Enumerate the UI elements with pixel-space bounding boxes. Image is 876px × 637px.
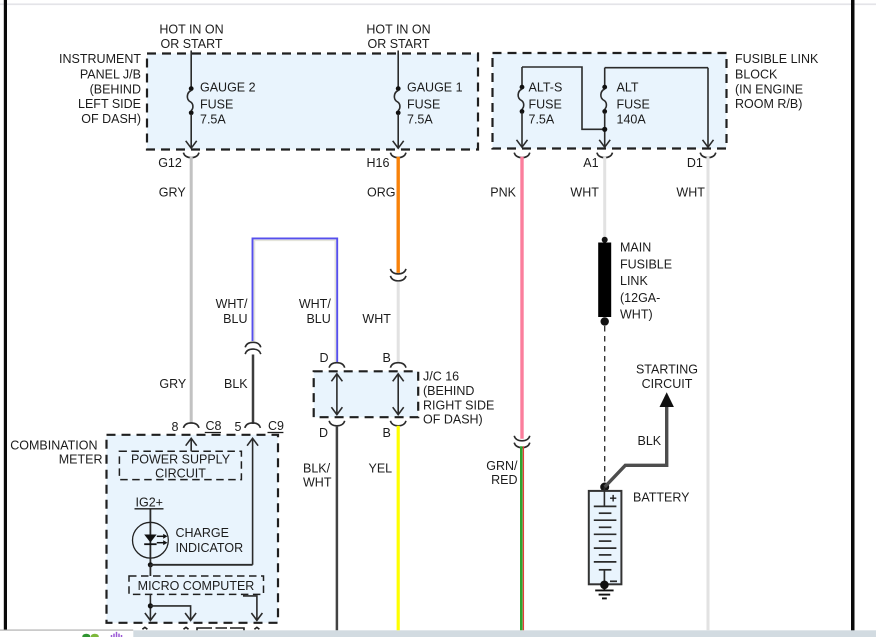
connector pin (PNK output) [514,153,530,158]
connector pin G12 [183,153,199,158]
svg-text:G12: G12 [158,156,182,170]
label ALT FUSE 140A [617,81,650,127]
junction node (ALT-S tap) [602,127,607,132]
bottom gray status bar [133,630,876,637]
svg-text:CIRCUIT: CIRCUIT [155,466,206,480]
wire IG2+ to LED [149,510,151,565]
svg-text:H16: H16 [367,156,390,170]
svg-text:D: D [319,426,328,440]
connector pin D cup (J/C16 bottom) [329,421,345,426]
main fusible link (12GA-WHT) [598,243,611,318]
wire PNK [520,157,523,439]
wire D1 drop inside block [707,68,709,147]
arrow to D1 [703,140,714,147]
bottom left purple icon fragment [112,632,122,637]
svg-text:WHT: WHT [676,186,705,200]
connector pin B cap (J/C16 top) [390,363,406,368]
svg-text:CIRCUIT: CIRCUIT [642,377,693,391]
label WHT/BLU (left) [216,297,248,326]
label BLK/WHT [303,461,332,489]
label GAUGE 2 FUSE 7.5A [200,81,256,127]
wire BLK to combination meter pin 5 [252,355,255,425]
svg-text:BLOCK: BLOCK [735,67,778,81]
svg-text:OF DASH): OF DASH) [81,112,141,126]
fuse ALT 140A [601,68,607,147]
svg-text:WHT: WHT [362,312,391,326]
junction connector J/C 16 block [314,371,419,417]
svg-text:8: 8 [172,420,179,434]
svg-text:WHT: WHT [570,186,599,200]
wire WHT to J/C16 pin B [397,282,400,363]
svg-text:GRN/: GRN/ [486,459,518,473]
svg-text:BLU: BLU [306,312,330,326]
battery [589,487,622,585]
svg-text:BLK/: BLK/ [303,461,331,475]
svg-text:FUSE: FUSE [200,97,233,111]
svg-text:WHT): WHT) [620,308,653,322]
connector pin D1 [700,153,716,158]
svg-text:GAUGE 1: GAUGE 1 [407,81,463,95]
svg-text:BATTERY: BATTERY [633,491,690,505]
label WHT/BLU (middle) [299,297,331,326]
svg-text:(BEHIND: (BEHIND [90,82,141,96]
wire pin 5 down right side [247,438,258,565]
svg-text:140A: 140A [617,113,647,127]
wire hot feed to gauge 1 fuse [397,51,399,88]
svg-text:LINK: LINK [620,274,648,288]
label MAIN FUSIBLE LINK (12GA-WHT) [620,241,672,322]
micro computer box [129,576,264,594]
wire pin 8 into power supply circuit [186,438,197,451]
wire micro computer output left [145,594,156,620]
wire WHT/BLU loop (white strand) [254,240,335,362]
svg-text:5: 5 [235,420,242,434]
label GAUGE 1 FUSE 7.5A [407,81,463,127]
svg-text:(12GA-: (12GA- [620,291,660,305]
connector pin H16 [390,153,406,158]
svg-text:CHARGE: CHARGE [176,526,229,540]
fusible link block top rail ALT-S [522,67,603,129]
wire BLK/WHT [336,426,339,631]
svg-text:WHT/: WHT/ [216,297,248,311]
svg-text:OR START: OR START [160,37,222,51]
svg-text:A1: A1 [583,156,598,170]
wire GRN/RED [521,446,523,630]
svg-text:HOT IN ON: HOT IN ON [366,22,430,36]
svg-text:BLK: BLK [638,434,662,448]
fuse GAUGE 2 7.5A [186,86,197,148]
inline splice PNK to GRN/RED [514,436,530,448]
svg-text:ROOM R/B): ROOM R/B) [735,97,802,111]
charge indicator LED [133,522,169,558]
C8 underline [205,432,221,434]
svg-text:WHT/: WHT/ [299,297,331,311]
svg-text:HOT IN ON: HOT IN ON [159,22,223,36]
svg-text:(IN ENGINE: (IN ENGINE [735,82,803,96]
C9 underline [268,432,284,434]
svg-text:J/C 16: J/C 16 [423,370,459,384]
connector pin B cup (J/C16 bottom) [390,421,406,426]
wire micro computer output right [244,594,263,620]
svg-text:ALT: ALT [617,81,639,95]
fuse GAUGE 1 7.5A [393,86,404,148]
svg-text:GRY: GRY [159,186,187,200]
combination meter block [107,435,279,623]
power supply circuit box [119,451,241,479]
inline splice ORG to WHT [390,269,406,281]
svg-text:FUSE: FUSE [407,97,440,111]
svg-text:GAUGE 2: GAUGE 2 [200,81,256,95]
bottom left white panel [0,631,133,637]
svg-text:FUSE: FUSE [529,97,562,111]
connector pin 8 cap [183,423,199,428]
connector pin D cap (J/C16 top) [329,363,345,368]
fusible link block top rail ALT [605,67,708,69]
svg-text:B: B [383,351,391,365]
label GRN/RED [486,459,518,487]
wire GRY from G12 to combination meter pin 8 [190,157,193,424]
svg-text:ALT-S: ALT-S [529,81,563,95]
svg-text:B: B [383,426,391,440]
svg-text:BLK: BLK [224,377,248,391]
svg-text:PNK: PNK [490,186,516,200]
label ALT-S FUSE 7.5A [529,81,563,127]
svg-text:FUSE: FUSE [617,97,650,111]
svg-text:WHT: WHT [303,475,332,489]
node battery negative [600,581,609,590]
svg-text:FUSIBLE: FUSIBLE [620,257,672,271]
svg-text:D: D [320,351,329,365]
svg-text:RED: RED [491,473,517,487]
inline splice WHT/BLU to BLK [245,342,261,354]
svg-text:MICRO COMPUTER: MICRO COMPUTER [138,579,255,593]
instrument panel J/B block [147,54,478,150]
svg-text:BLU: BLU [223,312,247,326]
svg-text:GRY: GRY [159,377,187,391]
label J/C 16 (BEHIND RIGHT SIDE OF DASH) [423,370,494,427]
fusible link block [493,53,727,149]
svg-text:+: + [610,492,617,506]
svg-text:IG2+: IG2+ [136,496,163,510]
wire dashed to battery [604,326,606,484]
J/C16 internal arrow D [331,374,342,415]
svg-text:METER: METER [59,453,103,467]
svg-text:RIGHT SIDE: RIGHT SIDE [423,398,494,412]
junction node below micro computer [148,603,153,608]
svg-text:POWER SUPPLY: POWER SUPPLY [131,453,231,467]
svg-text:YEL: YEL [369,461,393,475]
wire branch to second arrow [150,606,196,621]
svg-text:ORG: ORG [367,186,395,200]
wire WHT from A1 [603,157,606,239]
svg-text:PANEL J/B: PANEL J/B [80,67,141,81]
svg-text:C8: C8 [206,419,222,433]
arrow to A1 [599,140,610,147]
top page divider line [0,3,876,5]
J/C16 internal arrow B [393,374,404,415]
svg-text:(BEHIND: (BEHIND [423,384,474,398]
node at main fusible link top [602,237,608,243]
label INSTRUMENT PANEL J/B [59,52,141,126]
wire WHT/BLU loop (blue strand) [253,238,338,362]
svg-text:LEFT SIDE: LEFT SIDE [78,97,141,111]
svg-text:OF DASH): OF DASH) [423,413,483,427]
wire WHT from D1 [707,157,710,631]
wire hot feed to gauge 2 fuse [190,51,192,88]
connector pin A1 [597,153,613,158]
ground [595,585,613,599]
svg-text:COMBINATION: COMBINATION [10,438,97,452]
right page border bar [851,0,855,631]
node at main fusible link bottom [601,317,609,325]
svg-text:7.5A: 7.5A [529,113,555,127]
wire LED junction to pin5 riser [150,564,252,566]
svg-text:OR START: OR START [367,37,429,51]
starting circuit arrowhead [660,392,674,407]
left page border bar [4,0,7,630]
label COMBINATION METER [10,438,102,466]
svg-text:7.5A: 7.5A [407,113,433,127]
wire BLK to starting circuit [605,406,667,487]
svg-text:STARTING: STARTING [636,363,698,377]
svg-text:MAIN: MAIN [620,241,651,255]
wire ORG [397,157,400,273]
label FUSIBLE LINK BLOCK [735,52,819,111]
fuse ALT-S 7.5A [517,67,528,147]
bottom left green logo fragment [82,634,99,637]
svg-text:INDICATOR: INDICATOR [176,541,244,555]
svg-text:D1: D1 [687,156,703,170]
svg-text:C9: C9 [268,419,284,433]
bottom left panel top edge [0,630,133,631]
svg-text:7.5A: 7.5A [200,113,226,127]
cut-off symbols below combination meter [142,627,259,630]
junction node battery positive [600,483,609,492]
wire junction to micro computer [149,565,151,576]
wire YEL [397,426,400,631]
junction node below LED [148,562,153,567]
connector pin 5 cap [245,423,261,428]
svg-text:INSTRUMENT: INSTRUMENT [59,52,141,66]
svg-text:FUSIBLE LINK: FUSIBLE LINK [735,52,819,66]
